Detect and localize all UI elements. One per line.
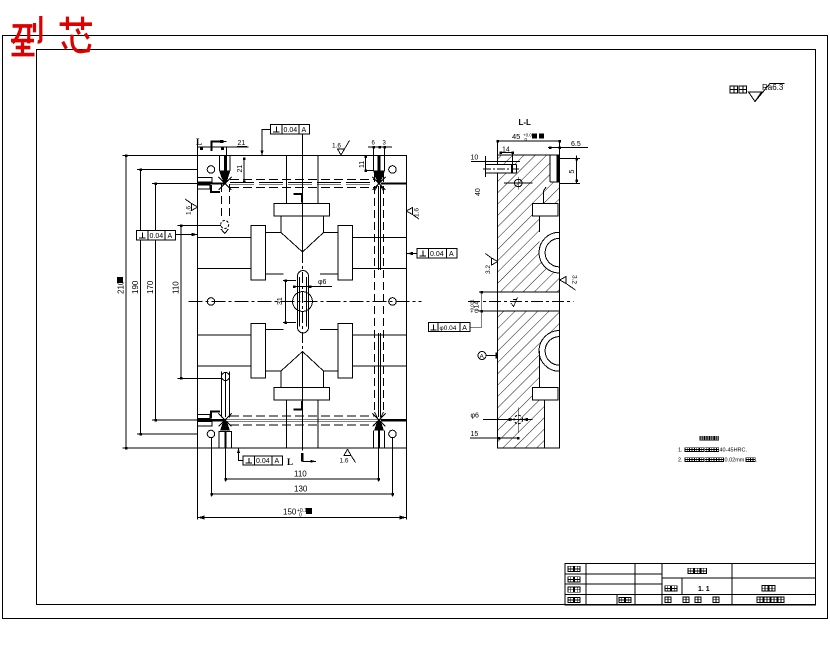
svg-text:14: 14	[502, 147, 510, 154]
svg-text:40: 40	[475, 188, 482, 196]
svg-text:2.: 2.	[678, 458, 683, 464]
svg-text:0.04: 0.04	[150, 233, 164, 240]
svg-text:11: 11	[359, 161, 366, 168]
svg-text:45: 45	[512, 132, 520, 141]
svg-text:190: 190	[131, 280, 140, 294]
svg-text:3: 3	[383, 141, 387, 147]
svg-text:1. 1: 1. 1	[698, 586, 710, 593]
svg-text:6.5: 6.5	[571, 141, 581, 148]
svg-text:3.2: 3.2	[485, 265, 492, 274]
svg-text:130: 130	[294, 485, 308, 494]
svg-text:Ra6.3: Ra6.3	[762, 83, 784, 92]
svg-text:1.6: 1.6	[340, 458, 349, 465]
svg-text:150: 150	[283, 508, 297, 517]
svg-text:15: 15	[471, 431, 479, 438]
svg-text:110: 110	[172, 281, 181, 294]
svg-text:φ6: φ6	[471, 413, 480, 420]
svg-text:0.04: 0.04	[284, 127, 298, 134]
svg-text:φ6: φ6	[318, 279, 327, 286]
svg-text:1.: 1.	[678, 448, 683, 454]
svg-text:5: 5	[569, 170, 576, 174]
svg-text:φ14: φ14	[474, 301, 481, 313]
svg-text:1.6: 1.6	[332, 143, 341, 150]
svg-text:L: L	[287, 457, 293, 467]
svg-text:1.6: 1.6	[186, 206, 193, 215]
svg-text:0.02mm: 0.02mm	[725, 458, 745, 464]
svg-text:110: 110	[294, 470, 307, 479]
svg-text:40-45HRC.: 40-45HRC.	[720, 448, 748, 454]
svg-text:0.04: 0.04	[430, 251, 444, 258]
svg-text:L: L	[196, 137, 202, 147]
svg-text:L-L: L-L	[519, 118, 532, 127]
svg-text:6: 6	[372, 141, 376, 147]
svg-text:0: 0	[299, 513, 302, 519]
svg-text:.: .	[756, 458, 758, 464]
svg-text:0.04: 0.04	[256, 458, 270, 465]
svg-text:A: A	[462, 325, 467, 332]
svg-text:A: A	[168, 233, 173, 240]
svg-text:+0.021: +0.021	[470, 299, 475, 313]
svg-text:170: 170	[146, 280, 155, 294]
svg-text:A: A	[275, 458, 280, 465]
svg-text:10: 10	[471, 155, 479, 162]
svg-text:21: 21	[237, 165, 244, 173]
svg-text:φ0.04: φ0.04	[440, 325, 457, 332]
svg-text:3.2: 3.2	[571, 275, 578, 284]
svg-text:A: A	[449, 251, 454, 258]
svg-text:31: 31	[277, 297, 284, 305]
svg-text:1.6: 1.6	[414, 208, 421, 217]
svg-text:A: A	[480, 354, 485, 361]
svg-text:A: A	[302, 127, 307, 134]
